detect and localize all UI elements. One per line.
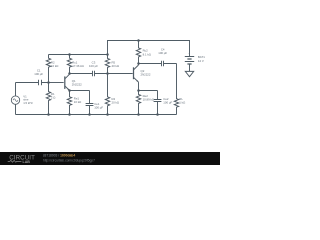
battery BAT1 bbox=[185, 57, 194, 72]
capacitor Ce1 bbox=[86, 91, 94, 115]
node rail-Ce2 bbox=[156, 113, 159, 116]
footer id text bbox=[43, 154, 95, 163]
resistor R2 bbox=[46, 55, 50, 83]
resistor R1 bbox=[46, 83, 50, 115]
svg-text:100 µF: 100 µF bbox=[89, 64, 98, 68]
node Q2 collector bbox=[137, 62, 140, 65]
svg-text:1.5 kHz: 1.5 kHz bbox=[23, 101, 33, 105]
wire Q1 base bbox=[49, 82, 64, 84]
svg-text:10.89 kΩ: 10.89 kΩ bbox=[143, 98, 154, 102]
capacitor C4 bbox=[139, 61, 177, 67]
wire bottom rail bbox=[16, 114, 177, 116]
svg-text:s8718903 / 1600dab4: s8718903 / 1600dab4 bbox=[43, 154, 75, 158]
svg-text:10 kΩ: 10 kΩ bbox=[74, 100, 82, 104]
svg-text:1 kΩ: 1 kΩ bbox=[179, 100, 185, 104]
transistor Q2 emitter arrow bbox=[137, 80, 139, 82]
capacitor C3 bbox=[70, 71, 108, 77]
transistor Q1 bbox=[64, 76, 66, 89]
wire top rail 2 bbox=[108, 41, 190, 57]
capacitor C1 bbox=[16, 80, 49, 86]
node Q2 emitter bbox=[137, 89, 140, 92]
resistor Re2 bbox=[136, 91, 140, 115]
svg-text:2 Ω: 2 Ω bbox=[51, 96, 56, 100]
svg-text:100 µF: 100 µF bbox=[34, 72, 43, 76]
resistor R5 bbox=[105, 55, 109, 74]
svg-text:100 µF: 100 µF bbox=[158, 51, 167, 55]
svg-text:40 kΩ: 40 kΩ bbox=[112, 64, 120, 68]
node rail-Ce1 bbox=[88, 113, 91, 116]
node Q2 base bbox=[106, 72, 109, 75]
resistor R4 bbox=[105, 74, 109, 115]
svg-text:8.1 kΩ: 8.1 kΩ bbox=[143, 52, 151, 56]
capacitor Ce2 bbox=[154, 91, 162, 115]
wire emitter branch 1 bbox=[70, 90, 90, 92]
resistor RL bbox=[174, 64, 178, 115]
footer bar bbox=[0, 152, 220, 165]
svg-text:+: + bbox=[188, 52, 190, 56]
node rail1-Rc1 bbox=[68, 53, 71, 56]
svg-text:100 µF: 100 µF bbox=[94, 105, 103, 109]
svg-text:20 kΩ: 20 kΩ bbox=[112, 101, 120, 105]
wire top rail 1 bbox=[49, 54, 108, 56]
resistor Rc1 bbox=[67, 55, 71, 74]
svg-text:10 kΩ: 10 kΩ bbox=[51, 64, 59, 68]
svg-text:2N2222: 2N2222 bbox=[141, 72, 151, 76]
transistor Q2 bbox=[133, 67, 135, 79]
node Q1 emitter bbox=[68, 89, 71, 92]
node rail2-Rc2 bbox=[137, 39, 140, 42]
CircuitLab logo wordmark bbox=[8, 155, 35, 164]
resistor Re1 bbox=[67, 91, 71, 115]
node Q1 collector bbox=[68, 72, 71, 75]
node rail-R1 bbox=[47, 113, 50, 116]
svg-text:17.36 kΩ: 17.36 kΩ bbox=[72, 64, 83, 68]
transistor Q1 emitter arrow bbox=[68, 89, 70, 91]
wire emitter branch 2 bbox=[139, 90, 158, 92]
node rail-R4 bbox=[106, 113, 109, 116]
node A base Q1 bbox=[47, 81, 50, 84]
resistor Rc2 bbox=[136, 41, 140, 64]
node rail-Re1 bbox=[68, 113, 71, 116]
svg-text:12 V: 12 V bbox=[198, 59, 204, 63]
svg-text:LAB: LAB bbox=[23, 160, 31, 164]
svg-text:2N2222: 2N2222 bbox=[72, 83, 82, 87]
ground bbox=[185, 71, 193, 76]
wire Q2 base bbox=[108, 73, 133, 75]
node rail-Re2 bbox=[137, 113, 140, 116]
svg-text:http://circuitlab.com/c93upq29: http://circuitlab.com/c93upq29f5gp7 bbox=[43, 158, 95, 162]
svg-text:100 µF: 100 µF bbox=[163, 101, 172, 105]
node rail1-R5 bbox=[106, 53, 109, 56]
voltage source V1 bbox=[15, 83, 17, 115]
